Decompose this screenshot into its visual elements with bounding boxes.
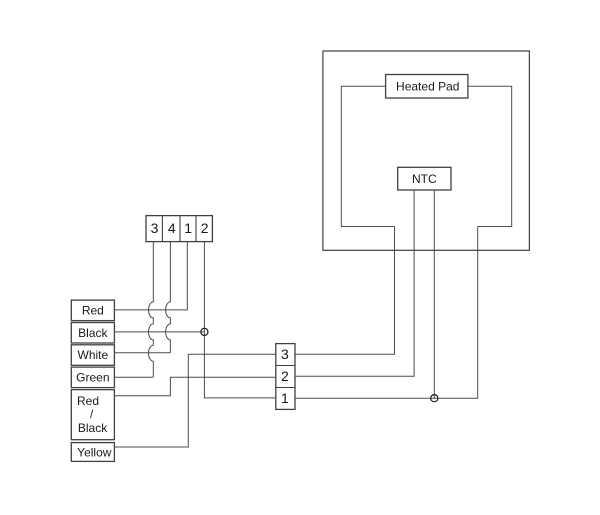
- svg-text:Heated Pad: Heated Pad: [396, 79, 459, 93]
- svg-text:4: 4: [168, 220, 176, 236]
- svg-text:White: White: [78, 348, 109, 362]
- svg-text:NTC: NTC: [412, 172, 437, 186]
- svg-text:Red: Red: [82, 304, 104, 318]
- svg-text:3: 3: [281, 346, 289, 362]
- svg-text:Black: Black: [78, 421, 108, 435]
- svg-text:1: 1: [184, 220, 192, 236]
- svg-text:1: 1: [281, 390, 289, 406]
- svg-text:Yellow: Yellow: [77, 446, 112, 460]
- svg-text:2: 2: [201, 220, 209, 236]
- svg-text:Red: Red: [77, 394, 99, 408]
- svg-text:3: 3: [151, 220, 159, 236]
- svg-text:2: 2: [281, 368, 289, 384]
- svg-text:Black: Black: [78, 326, 108, 340]
- svg-text:Green: Green: [76, 371, 109, 385]
